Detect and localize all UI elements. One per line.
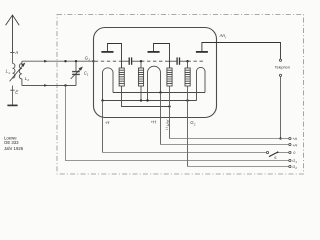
anode 3 / An I out [196, 43, 281, 60]
wire +H pin [160, 93, 162, 145]
variometer arrow [10, 63, 26, 82]
anode 1 [101, 44, 121, 69]
node E [10, 89, 19, 94]
resistor R2 [138, 61, 143, 86]
pin dot G1 [92, 60, 94, 62]
svg-text:2: 2 [26, 78, 29, 82]
svg-text:2: 2 [193, 122, 196, 126]
node dot [279, 137, 281, 139]
node dot [186, 99, 188, 101]
row 1 +A [170, 138, 289, 140]
node dot [75, 60, 77, 62]
ground [7, 104, 17, 106]
label An II [165, 119, 171, 130]
rail -H [103, 100, 197, 102]
wire telephon to +A row [280, 77, 282, 139]
node dot [64, 84, 66, 86]
node dot [146, 99, 148, 101]
node dot [159, 91, 161, 93]
svg-text:OE 333: OE 333 [4, 140, 19, 145]
svg-text:A: A [14, 50, 18, 55]
rail +H (top) [113, 92, 205, 94]
feedthrough arrow [44, 84, 47, 87]
svg-text:+H: +H [151, 120, 157, 125]
capacitor internal 2 [177, 57, 179, 64]
resistor R3 [167, 68, 172, 86]
capacitor internal 1 [129, 57, 131, 64]
node dot [64, 60, 66, 62]
anode 2 [148, 44, 170, 69]
node A [10, 50, 18, 55]
svg-text:Jahr 1926: Jahr 1926 [4, 146, 24, 151]
wire L2 top to G1 [22, 60, 94, 62]
tube 3NF envelope [94, 28, 217, 118]
filament 3 [197, 67, 206, 100]
node dot [168, 105, 170, 107]
row 2 +H [161, 144, 289, 146]
node dot [140, 99, 142, 101]
wire R2 bottom [140, 86, 142, 101]
wire L2 bottom [22, 85, 76, 87]
grid line dashed [95, 60, 206, 62]
capacitor C1 [72, 61, 80, 85]
resistor R4 [185, 61, 190, 86]
resistor R1 [119, 68, 124, 86]
switch lever [269, 152, 278, 157]
filament 1 [103, 68, 114, 101]
svg-text:An: An [166, 119, 171, 127]
svg-text:I I: I I [165, 127, 169, 130]
filament 2 [148, 66, 161, 100]
feedthrough arrow [44, 60, 47, 63]
chassis dash-dot box [57, 15, 304, 175]
antenna [6, 15, 20, 52]
wire -H pin [102, 101, 104, 153]
coil L2 [19, 61, 22, 85]
node dot [101, 99, 103, 101]
svg-text:Telephon: Telephon [275, 66, 290, 70]
telephon terminals [279, 59, 281, 61]
row 3 with switch S [103, 152, 267, 154]
svg-text:+H: +H [292, 143, 297, 147]
row 5 G2 [188, 166, 289, 168]
rail An II [122, 86, 170, 107]
coil L1 [13, 63, 15, 78]
svg-text:+A: +A [292, 137, 297, 141]
wire [12, 86, 14, 106]
node dot J2 [140, 60, 142, 62]
wire R3 bottom / An II pin [169, 86, 171, 139]
wire [12, 52, 14, 63]
node dot J4 [186, 60, 188, 62]
row 4 G1 [66, 86, 289, 161]
wire R4 bottom / G2 pin [187, 86, 189, 167]
